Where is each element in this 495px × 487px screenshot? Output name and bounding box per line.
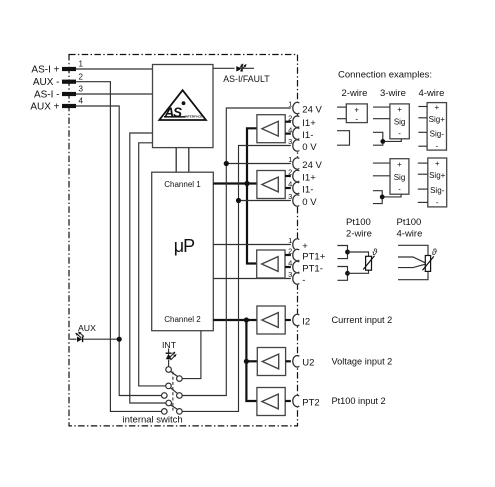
wire A5 output U2 [286,360,293,362]
svg-text:24 V: 24 V [302,160,322,171]
svg-text:AS: AS [164,105,183,120]
svg-text:1: 1 [288,236,292,245]
svg-text:Sig: Sig [394,173,406,182]
terminal 2 (AUX -) bar [62,80,76,84]
switch S1 throw contact [177,376,183,382]
Pt100 2-wire top bracket [337,246,347,259]
wire 4-wire row2 supply+ [418,162,428,164]
svg-text:-: - [302,275,305,286]
svg-text:Channel 1: Channel 1 [164,180,201,189]
4-wire sensor box row2 [428,158,447,207]
svg-text:2-wire: 2-wire [342,88,368,99]
switch S1 blade [171,372,178,377]
svg-text:Current input 2: Current input 2 [332,315,393,325]
svg-text:1: 1 [288,100,292,109]
svg-text:internal switch: internal switch [123,414,183,425]
svg-text:3: 3 [79,85,84,94]
junction 3-wire row2 node [380,195,385,200]
svg-text:-: - [435,142,438,151]
svg-text:Sig+: Sig+ [429,171,446,180]
microprocessor box U1 [152,172,214,331]
svg-text:2: 2 [288,168,292,177]
svg-text:2: 2 [79,72,84,81]
wire 2-wire supply+ [337,106,346,108]
wire 4-wire sig- [418,131,427,133]
svg-text:PT1-: PT1- [302,263,323,274]
amplifier A6 [257,388,285,416]
wire A3 output pin2 [285,254,293,256]
svg-text:4: 4 [79,97,84,106]
junction 3-wire node [380,139,385,144]
wire 0V bus [182,146,292,412]
svg-text:2: 2 [288,247,292,256]
wire 24V bus to group2 terminal [226,163,292,165]
wire AS-i box to AS-I/FAULT LED [213,67,235,69]
wire Pt100 4-wire lead1 [398,245,428,255]
terminal clamp PT1- at y=267.0 [291,261,303,273]
svg-text:Pt100: Pt100 [397,217,422,228]
wire AS-I- terminal 3 to AS-i box [76,93,153,95]
junction channel 2 node [244,317,249,322]
switch coupling dashed link [172,372,174,411]
svg-text:PT2: PT2 [302,397,319,408]
terminal 1 (AS-I +) bar [62,67,76,71]
wire A3 output pin4 [285,266,293,268]
svg-text:Channel 2: Channel 2 [164,315,201,324]
wire AS-i box to switch 3 pivot [130,133,166,403]
amplifier A1 [257,115,285,143]
terminal clamp 24 V at y=108.0 [291,102,303,114]
wire 3-wire signal [373,118,390,120]
svg-text:4: 4 [288,125,292,134]
svg-text:AUX: AUX [78,323,96,333]
Pt100 2-wire bottom bracket [337,267,347,281]
wire AUX- terminal 2 down to switch contact [76,82,161,412]
svg-text:4: 4 [288,259,292,268]
svg-text:0 V: 0 V [302,142,317,153]
3-wire ground bracket [373,132,383,145]
wire Pt100 4-wire lead2 [398,257,425,263]
junction channel 1 node [244,181,249,186]
terminal clamp 24 V at y=163.5 [291,157,303,169]
wire AUX+ terminal 4 down to switch contact [76,106,161,396]
wire 0V bus to group2 terminal [239,200,293,202]
wire channel 1 output to amplifier A2 [213,182,257,184]
wire 4-wire supply- [418,145,427,147]
wire INT LED to switch 1 pivot [168,360,170,367]
LED AUX [70,338,77,340]
wire 3-wire row2 minus link [382,194,401,197]
wire 2-wire supply- [337,118,346,120]
svg-text:+: + [435,159,440,168]
svg-text:Sig: Sig [394,118,406,127]
switch S2 blade [171,388,178,393]
wire 3-wire row2 signal [373,175,390,177]
junction 24V bus node [224,161,229,166]
wire 4-wire row2 sig+ [418,173,428,175]
wire 4-wire supply+ [418,106,427,108]
terminal clamp PT2 at y=401.0 [291,395,303,407]
svg-text:-: - [436,198,439,207]
svg-text:-: - [398,184,401,193]
wire A1 output pin4 [285,133,292,135]
junction AUX LED node [117,337,122,342]
bus AS-i box to microprocessor [175,148,177,173]
terminal clamp I1+ at y=176.0 [291,170,303,182]
amplifier A2 [257,171,285,199]
svg-text:Sig-: Sig- [430,130,445,139]
terminal clamp I2 at y=320.0 [291,314,303,326]
svg-text:1: 1 [288,155,292,164]
AS-i gateway box [153,65,214,148]
svg-text:+: + [302,241,308,252]
switch S3 pivot contact [166,400,172,406]
svg-text:AUX -: AUX - [33,77,60,88]
svg-text:1: 1 [79,60,84,69]
svg-text:3: 3 [288,270,292,279]
resistor RTD2 Pt100 element [425,256,430,272]
switch S3 open contact [162,409,168,415]
svg-text:2-wire: 2-wire [346,229,372,240]
wire 3-wire row2 supply+ [373,162,390,164]
wire AUX LED to AUX+ bus [83,338,119,340]
wire 4-wire sig+ [418,117,427,119]
wire 3-wire minus link [383,139,402,142]
svg-text:3-wire: 3-wire [380,88,406,99]
svg-text:3: 3 [288,137,292,146]
terminal clamp 0 V at y=200.5 [291,194,303,206]
AS-i logo underline [164,116,186,118]
switch S3 throw contact [177,409,183,415]
2-wire sensor box [346,104,367,123]
switch S2 pivot contact [166,383,172,389]
svg-text:Pt100: Pt100 [346,217,371,228]
svg-text:3: 3 [288,192,292,201]
wire Pt100 2-wire top lead [348,252,369,256]
amplifier A5 [257,348,285,376]
svg-text:-: - [398,129,401,138]
terminal 4 (AUX +) bar [62,104,76,108]
svg-text:Pt100 input 2: Pt100 input 2 [332,396,386,406]
wire channel 2 branch to amplifiers A5 and A6 [246,320,257,401]
3-wire sensor box [390,104,409,139]
svg-text:I2: I2 [302,316,310,327]
LED INT [168,349,170,354]
switch S2 throw contact [177,393,183,399]
resistor RTD1 Pt100 element [366,256,372,270]
4-wire sensor box [427,103,446,151]
terminal clamp I1- at y=188.0 [291,182,303,194]
terminal clamp I1- at y=133.6 [291,127,303,139]
svg-text:INT: INT [162,340,177,350]
junction 0V bus node [236,198,241,203]
svg-text:INTERFACE: INTERFACE [185,115,203,119]
junction Pt100 2-wire bottom node [345,271,350,276]
svg-text:I1-: I1- [302,184,313,195]
svg-text:I1-: I1- [302,130,313,141]
amplifier A4 [257,306,285,334]
terminal clamp PT1+ at y=255.0 [291,249,303,261]
amplifier A3 [257,250,285,278]
svg-text:+: + [434,103,439,112]
svg-text:AS-I/FAULT: AS-I/FAULT [223,74,270,84]
wire A2 output pin2 [285,175,292,177]
wire Pt100 2-wire bottom lead [348,270,369,273]
svg-text:I1+: I1+ [302,118,316,129]
wire 4-wire row2 sig- [418,188,428,190]
terminal clamp minus at y=278.5 [291,272,303,284]
wire A6 output PT2 [285,400,292,402]
terminal clamp U2 at y=361.3 [291,355,303,367]
wire channel 2 branch to amplifier A5 [246,360,257,362]
junction channel 2 U2 node [244,359,249,364]
wire 4-wire row2 supply- [418,201,428,203]
svg-text:Sig+: Sig+ [429,115,446,124]
module enclosure dash-dot border [69,55,298,426]
svg-text:4-wire: 4-wire [419,88,445,99]
svg-text:U2: U2 [302,358,314,369]
wire Pt100 4-wire lead3 [398,264,425,267]
LED AS-I/FAULT [236,66,241,72]
terminal clamp 0 V at y=145.5 [291,139,303,151]
svg-text:AUX +: AUX + [30,101,59,112]
svg-text:-: - [355,114,358,123]
svg-text:24 V: 24 V [302,104,322,115]
wire after AS-I/FAULT LED [242,67,254,69]
svg-text:Voltage input 2: Voltage input 2 [332,357,393,367]
wire AS-i box to switch 2 pivot [139,143,166,386]
wire uP to PT1 minus terminal [213,278,292,280]
svg-text:Sig-: Sig- [430,186,445,195]
wire channel 1 branch to amplifiers A1 and A3 [247,128,257,263]
junction Pt100 2-wire top node [345,250,350,255]
AS-i logo dot [182,101,186,105]
svg-text:+: + [354,105,359,114]
svg-text:4: 4 [288,180,292,189]
wire uP to PT1 plus terminal [213,244,292,246]
svg-text:Connection examples:: Connection examples: [338,70,432,81]
wire A1 output pin2 [285,121,292,123]
wire A4 output I2 [285,319,292,321]
wire Pt100 4-wire lead4 [398,271,428,279]
svg-text:2: 2 [288,113,292,122]
terminal 3 (AS-I -) bar [62,92,76,96]
2-wire unused input bracket [337,131,350,146]
svg-text:4-wire: 4-wire [397,229,423,240]
svg-text:AS-I -: AS-I - [34,89,60,100]
svg-text:AS-I +: AS-I + [31,64,59,75]
wire AS-I+ terminal 1 to AS-i box [76,68,153,70]
3-wire row2 ground bracket [373,191,382,204]
svg-text:I1+: I1+ [302,172,316,183]
terminal clamp I1+ at y=121.7 [291,116,303,128]
terminal clamp plus at y=244.5 [291,238,303,250]
wire 24V bus [182,108,292,396]
AS-i logo triangle [159,90,206,120]
switch S3 blade [171,405,178,409]
wire channel 2 output to amplifier A4 [213,319,257,321]
wire 3-wire supply+ [373,106,390,108]
wire A2 output pin4 [285,187,292,189]
switch S1 pivot contact [166,367,172,373]
svg-text:PT1+: PT1+ [302,251,325,262]
svg-text:+: + [397,105,402,114]
svg-text:+: + [397,160,402,169]
svg-text:0 V: 0 V [302,197,317,208]
switch S2 open contact [162,393,168,399]
svg-text:μP: μP [174,236,195,256]
3-wire sensor box row2 [390,159,409,195]
wire switch S1 to uP [182,331,201,379]
